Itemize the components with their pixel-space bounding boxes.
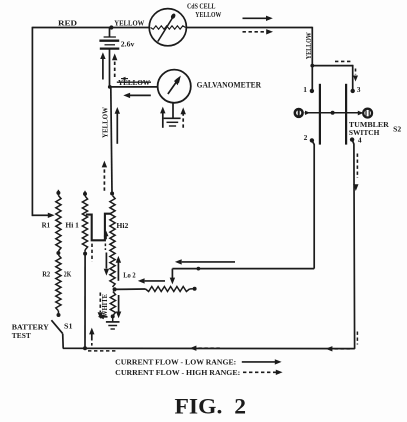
node battery top junction: [109, 25, 113, 29]
wire Lo2 left lead: [115, 288, 146, 290]
current arrow high-range up dashed (yellow wire): [103, 168, 105, 191]
svg-text:3: 3: [357, 85, 361, 94]
svg-text:CURRENT FLOW - HIGH RANGE:: CURRENT FLOW - HIGH RANGE:: [115, 368, 240, 377]
battery B1 plates 2.6v: [104, 36, 116, 38]
svg-text:S1: S1: [64, 321, 73, 330]
wire galvanometer branch horizontal: [110, 86, 158, 88]
ground (galvanometer): [164, 117, 181, 119]
wiper arrow into Lo 2: [171, 269, 173, 278]
terminal 1: [310, 89, 314, 93]
node Hi1 top: [83, 192, 87, 196]
svg-text:SWITCH: SWITCH: [349, 128, 380, 137]
node R1-R2 junction: [56, 251, 60, 255]
node switch feed junction: [310, 64, 314, 68]
current path high-range dashed (right corner): [356, 332, 358, 345]
current arrow high-range down dashed (white left): [99, 293, 101, 313]
terminal 3: [351, 89, 355, 93]
wire low-range return horizontal: [172, 268, 314, 270]
current arrow high-range left dashed (bottom mid): [190, 346, 197, 351]
battery B1 lead bottom: [109, 49, 111, 88]
terminal 4: [350, 137, 354, 141]
svg-text:YELLOW: YELLOW: [114, 18, 144, 27]
resistor Lo 2: [146, 287, 190, 292]
current arrow high-range up dashed (battery right): [114, 60, 116, 77]
current path high-range dashed (bottom left): [88, 350, 117, 352]
svg-text:BATTERY: BATTERY: [12, 322, 49, 331]
wire yellow vertical to divider: [111, 87, 112, 194]
svg-text:2.6v: 2.6v: [121, 39, 135, 48]
current arrow low-range right (top wire): [243, 17, 267, 19]
wire bottom horizontal: [63, 347, 355, 349]
wiper bridge between Hi1 and Hi2: [86, 214, 111, 241]
svg-text:FIG. 2: FIG. 2: [175, 394, 247, 419]
switch S2 right pole bar: [345, 84, 347, 145]
svg-text:2: 2: [304, 133, 308, 142]
CdS cell internal resistor: [151, 26, 186, 29]
resistor Hi2: [110, 196, 115, 288]
node Hi2 top junction: [110, 192, 114, 196]
node white resistor bottom: [111, 314, 115, 318]
legend low range arrow: [242, 361, 275, 363]
wire Hi1 drop to bottom: [84, 254, 86, 349]
current arrow low-range left (return wire): [182, 261, 235, 263]
svg-text:R1: R1: [42, 220, 51, 229]
current arrow up (bridge right leg): [105, 236, 107, 239]
CdS cell pointer needle: [158, 18, 173, 42]
current arrow left (Lo 2): [145, 280, 165, 282]
switch S2 left knob: [295, 109, 303, 117]
resistor R2 2K: [56, 255, 61, 311]
resistor R1: [56, 196, 61, 252]
current path high-range dashed (over feed): [335, 60, 352, 62]
current arrow low-range up (battery left): [102, 59, 104, 80]
svg-text:Hi 1: Hi 1: [65, 220, 79, 229]
node return junction: [197, 267, 201, 271]
node R2 bottom: [57, 311, 59, 314]
node Lo junction: [113, 287, 117, 291]
node galvanometer branch junction: [108, 85, 112, 89]
svg-text:GALVANOMETER: GALVANOMETER: [197, 80, 262, 89]
current path high-range dashed (below bridge): [91, 244, 93, 262]
current arrow high-range down dashed (into 3): [355, 69, 357, 75]
galvanometer G1 circle: [158, 70, 191, 103]
node Lo2 right terminal: [190, 288, 193, 290]
switch S2 left pole bar: [319, 84, 321, 145]
current arrow high-range up dashed (galv ground right): [182, 114, 184, 128]
switch S2 right knob: [358, 111, 364, 116]
wire terminal 4 drop: [352, 140, 355, 349]
wire drop to terminal 3: [352, 65, 354, 91]
wire switch feed horizontal: [312, 65, 352, 67]
svg-text:1: 1: [303, 85, 307, 94]
wire right vertical (yellow drop): [311, 27, 313, 91]
current arrow up (bottom left): [91, 334, 93, 341]
wire S1 to bottom: [62, 334, 65, 349]
legend high range arrow: [243, 371, 276, 373]
current arrow down (Hi2 bottom left): [104, 244, 106, 251]
ground (white resistor): [112, 316, 114, 321]
svg-text:CURRENT FLOW - LOW RANGE:: CURRENT FLOW - LOW RANGE:: [115, 357, 236, 366]
node actuator center: [331, 111, 335, 115]
svg-text:2K: 2K: [64, 270, 72, 279]
galvanometer ground lead: [172, 103, 174, 119]
current arrow low-range up (yellow wire): [116, 114, 118, 144]
wire terminal 2 drop: [312, 140, 314, 268]
svg-text:4: 4: [358, 136, 362, 145]
svg-text:Lo 2: Lo 2: [123, 270, 136, 279]
terminal 2: [310, 138, 314, 142]
svg-text:YELLOW: YELLOW: [101, 106, 110, 138]
svg-text:R2: R2: [42, 269, 50, 278]
switch S1 blade: [51, 320, 62, 333]
resistor white (meter shunt): [110, 292, 115, 316]
resistor Hi1: [82, 196, 87, 250]
CdS cell circle U-photo: [149, 9, 186, 46]
node R1 top: [56, 191, 60, 195]
current arrow low-range left (galv branch): [130, 94, 151, 96]
svg-text:Hi2: Hi2: [116, 221, 128, 230]
wire top horizontal (RED/YELLOW run): [32, 27, 312, 29]
wire left vertical: [31, 27, 33, 216]
svg-text:RED: RED: [58, 19, 78, 28]
current arrow high-range right dashed (top wire): [243, 31, 267, 33]
current arrow down (white right): [118, 295, 120, 312]
current arrow left (white bottom): [98, 314, 104, 319]
current arrow high-range down dashed (T4 wire): [356, 154, 358, 179]
current arrow up (Lo 2 side): [117, 263, 119, 281]
current arrow low-range up (galv ground left): [162, 113, 164, 128]
svg-text:YELLOW: YELLOW: [305, 32, 313, 60]
svg-text:S2: S2: [393, 125, 401, 134]
switch S2 actuator line: [305, 112, 362, 114]
node bottom-left junction: [83, 346, 87, 350]
battery B1 lead top: [109, 28, 111, 38]
svg-text:TEST: TEST: [12, 331, 32, 340]
current arrow high-range left dashed (bottom right): [326, 346, 333, 351]
node Hi1 bottom: [84, 250, 86, 252]
svg-text:YELLOW: YELLOW: [195, 10, 222, 19]
galvanometer needle: [168, 82, 177, 94]
wire feed arrow into R1: [32, 214, 48, 216]
